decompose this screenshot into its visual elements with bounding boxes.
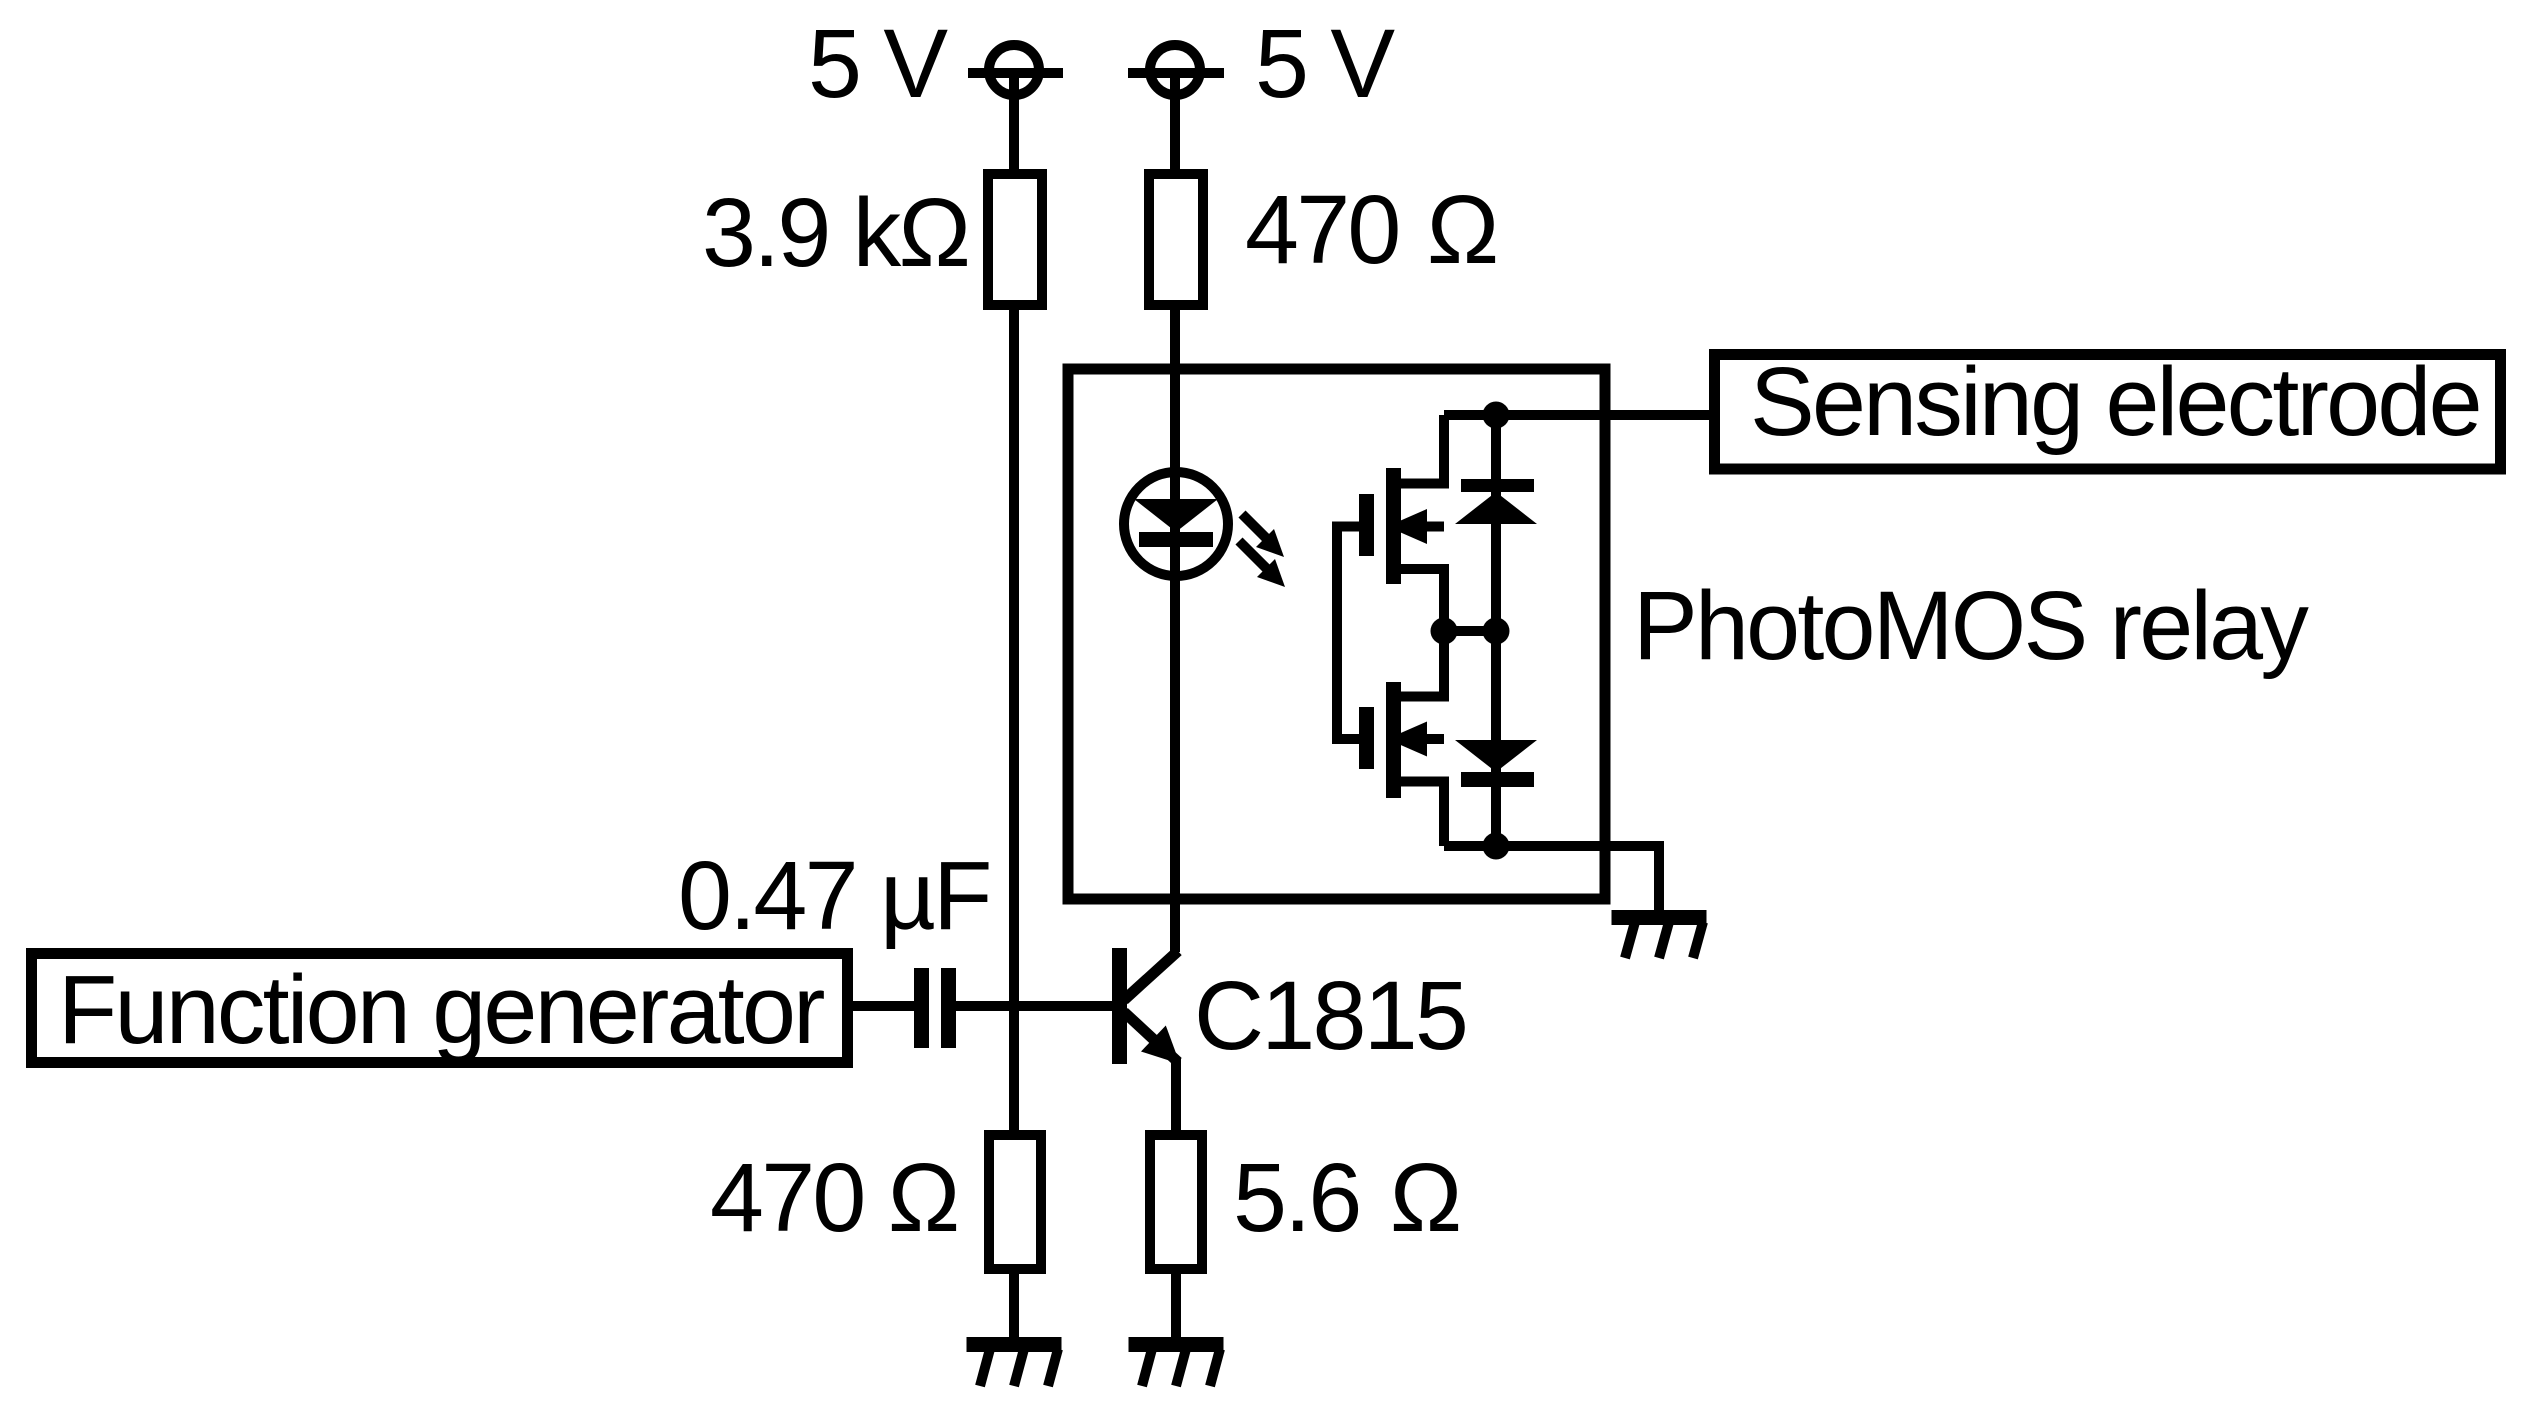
- resistor R1 3.9 kOhm: [988, 174, 1042, 305]
- wire gate rail: [1337, 527, 1359, 740]
- svg-text:0.47 µF: 0.47 µF: [678, 841, 990, 950]
- capacitor C1 0.47 uF: [914, 968, 956, 1048]
- svg-text:Sensing electrode: Sensing electrode: [1750, 347, 2480, 456]
- wire top (drain to sensing electrode): [1444, 410, 1709, 420]
- diode D2 (top body diode): [1455, 415, 1537, 631]
- wire capacitor to base: [956, 1001, 1112, 1011]
- svg-text:C1815: C1815: [1194, 961, 1466, 1070]
- transistor Q2 MOSFET (top): [1359, 415, 1444, 631]
- ground (left, below R3): [967, 1337, 1062, 1386]
- Function generator box: [32, 954, 848, 1063]
- svg-text:470 Ω: 470 Ω: [710, 1143, 958, 1252]
- wire middle (sources to diodes midpoint): [1444, 626, 1496, 636]
- resistor R2 470 Ohm (top): [1149, 174, 1203, 305]
- ground (relay output): [1612, 910, 1707, 958]
- LED D1 (inside relay): [1124, 472, 1228, 576]
- Sensing electrode box: [1715, 355, 2501, 470]
- svg-text:5 V: 5 V: [1255, 9, 1395, 118]
- LED light arrow 1: [1242, 514, 1284, 557]
- wire function generator to capacitor: [853, 1001, 914, 1011]
- diode D3 (bottom body diode): [1455, 631, 1537, 846]
- wire bottom (drain to ground): [1444, 846, 1659, 910]
- LED light arrow 2: [1239, 541, 1285, 587]
- transistor Q1 C1815 (NPN): [1112, 948, 1180, 1130]
- svg-text:5.6 Ω: 5.6 Ω: [1233, 1143, 1460, 1252]
- svg-text:5 V: 5 V: [808, 9, 948, 118]
- node middle right: [1483, 618, 1510, 645]
- wire emitter rail: [1171, 1130, 1181, 1337]
- svg-text:Function generator: Function generator: [58, 955, 824, 1064]
- power terminal V1 (left 5 V): [968, 45, 1063, 95]
- ground (right, below R4): [1129, 1337, 1224, 1386]
- svg-text:PhotoMOS relay: PhotoMOS relay: [1633, 571, 2309, 680]
- svg-text:3.9 kΩ: 3.9 kΩ: [702, 178, 968, 287]
- node bottom junction: [1483, 833, 1510, 860]
- resistor R4 5.6 Ohm: [1150, 1135, 1202, 1269]
- PhotoMOS relay box U1: [1068, 369, 1605, 899]
- resistor R3 470 Ohm (bottom): [989, 1135, 1041, 1269]
- node top junction: [1483, 402, 1510, 429]
- wire left rail: [1009, 73, 1019, 1337]
- svg-text:470 Ω: 470 Ω: [1245, 175, 1497, 284]
- transistor Q3 MOSFET (bottom): [1359, 631, 1444, 846]
- node middle left: [1431, 618, 1458, 645]
- wire right rail: [1170, 73, 1180, 952]
- power terminal V2 (right 5 V): [1128, 45, 1224, 95]
